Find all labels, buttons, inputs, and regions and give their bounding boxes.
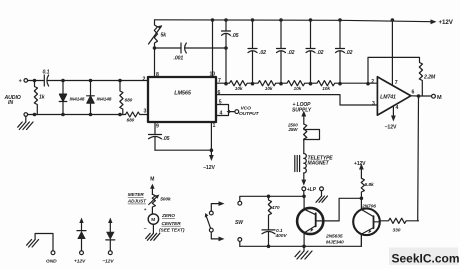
- capacitor .05 pin9: [154, 122, 156, 134]
- resistor 680 horizontal to pin3: [126, 112, 149, 117]
- svg-text:4: 4: [396, 105, 399, 111]
- transistor Q2 2N706: [353, 209, 380, 236]
- op-amp U2 LM741: [377, 77, 410, 115]
- wire input bottom: [28, 114, 126, 116]
- svg-text:ZERO: ZERO: [161, 213, 175, 219]
- capacitor 0.1 input: [43, 75, 45, 86]
- svg-text:IN: IN: [8, 100, 13, 106]
- switch SW terminals right: [238, 201, 242, 205]
- wire pin8 riser: [154, 48, 156, 77]
- capacitor C .05 top: [225, 20, 227, 31]
- -12V arrow LM565: [209, 155, 214, 161]
- svg-text:9: 9: [156, 124, 159, 130]
- svg-text:2: 2: [143, 76, 146, 82]
- svg-text:CENTER: CENTER: [162, 221, 182, 227]
- svg-text:0.1: 0.1: [43, 70, 50, 76]
- legend -12V supply symbol: [108, 251, 112, 255]
- svg-text:.02: .02: [259, 50, 266, 56]
- capacitor .02 no4: [339, 20, 341, 48]
- wire +12V top rail: [155, 20, 433, 22]
- audio input + terminal: [24, 79, 28, 83]
- svg-text:5: 5: [219, 100, 222, 106]
- svg-text:500k: 500k: [160, 196, 171, 202]
- wire Q1 collector up to +LP node: [303, 196, 305, 209]
- svg-text:LM741: LM741: [380, 95, 396, 101]
- potentiometer 500k: [152, 194, 155, 214]
- wire pin9 to pin1: [155, 149, 211, 151]
- svg-text:680: 680: [125, 98, 133, 104]
- switch SW poles left: [209, 211, 213, 215]
- svg-text:+: +: [144, 208, 147, 213]
- rheostat 2500 25W: [304, 124, 307, 140]
- svg-text:10k: 10k: [235, 86, 243, 92]
- inductor teletype magnet: [304, 154, 307, 174]
- svg-text:VCO: VCO: [241, 106, 252, 112]
- resistor 1k: [34, 81, 37, 115]
- wire .001 to node: [186, 47, 226, 49]
- +12V rail arrow: [431, 19, 437, 24]
- svg-text:+LP: +LP: [307, 187, 317, 193]
- resistor 470: [268, 196, 271, 229]
- wire Q2 collector up: [360, 198, 362, 209]
- terminal +LP: [302, 187, 306, 191]
- wire Q1 emitter down: [303, 233, 305, 247]
- svg-text:−12V: −12V: [385, 125, 397, 131]
- capacitor .02 no1: [252, 20, 254, 48]
- loop supply arrow: [301, 111, 306, 117]
- svg-text:1: 1: [213, 123, 216, 129]
- switch blade: [206, 216, 210, 228]
- svg-text:3: 3: [144, 109, 147, 115]
- svg-text:680: 680: [127, 117, 135, 123]
- capacitor .02 no2: [280, 20, 282, 48]
- svg-text:.05: .05: [232, 33, 239, 39]
- wire Q2 emitter down: [360, 234, 362, 246]
- meter M1 zero center: [148, 214, 158, 224]
- svg-text:2: 2: [371, 79, 374, 85]
- svg-text:.02: .02: [288, 50, 295, 56]
- resistor ladder pin7 10k x4: [216, 81, 377, 86]
- wire meter down: [152, 224, 154, 233]
- svg-text:6: 6: [412, 90, 415, 96]
- svg-text:+: +: [19, 78, 22, 84]
- svg-text:−: −: [144, 226, 147, 232]
- legend GND terminal: [51, 251, 55, 255]
- svg-text:+12V: +12V: [439, 19, 454, 26]
- meter branch arrow M: [150, 184, 155, 189]
- svg-text:MJE340: MJE340: [326, 240, 344, 246]
- svg-text:7: 7: [395, 80, 398, 86]
- svg-text:IN4148: IN4148: [70, 97, 85, 103]
- wire pin4 LM741: [392, 106, 394, 118]
- svg-text:10k: 10k: [294, 86, 302, 92]
- ground bottom rail: [303, 246, 305, 251]
- svg-text:2.2M: 2.2M: [423, 75, 436, 81]
- svg-text:LM565: LM565: [174, 91, 192, 97]
- svg-text:4: 4: [220, 111, 223, 117]
- output terminal M: [432, 94, 436, 98]
- svg-text:400V: 400V: [275, 233, 288, 239]
- wire input top: [28, 80, 44, 82]
- feedback loop 2.2M: [368, 57, 423, 96]
- svg-text:10: 10: [210, 71, 216, 77]
- wire pin7 riser LM741: [391, 20, 393, 86]
- transistor Q1 2N5635 MJE340: [297, 208, 323, 234]
- svg-text:M: M: [437, 95, 442, 101]
- svg-text:.02: .02: [317, 50, 324, 56]
- svg-text:.001: .001: [174, 56, 184, 62]
- svg-text:2N706: 2N706: [361, 204, 376, 210]
- svg-text:SUPPLY: SUPPLY: [292, 107, 312, 113]
- resistor 330: [380, 218, 419, 223]
- svg-text:6: 6: [218, 90, 221, 96]
- ground meter: [146, 233, 160, 240]
- VCO output terminal: [229, 111, 235, 113]
- wire output down: [417, 96, 420, 221]
- wire pin6 to pin3: [216, 95, 377, 105]
- svg-text:.02: .02: [346, 50, 353, 56]
- svg-text:2N5635: 2N5635: [325, 234, 343, 240]
- svg-text:330: 330: [393, 228, 401, 234]
- svg-text:IN4148: IN4148: [97, 97, 112, 103]
- ground audio in: [25, 116, 27, 122]
- svg-text:+12V: +12V: [354, 161, 366, 167]
- output wire LM741: [411, 95, 432, 97]
- svg-text:6.8k: 6.8k: [365, 182, 374, 188]
- legend +12V supply symbol: [80, 251, 84, 255]
- diode D1 1N4148: [62, 81, 64, 95]
- op-amp IC LM565 body: [148, 77, 216, 122]
- svg-text:+12V: +12V: [74, 258, 86, 264]
- diode D2 1N4148: [90, 81, 92, 96]
- potentiometer 5k: [154, 20, 157, 48]
- wire pin1 riser: [210, 122, 212, 157]
- capacitor .02 no3: [310, 20, 312, 48]
- svg-text:10k: 10k: [265, 86, 273, 92]
- tap box rheostat: [304, 130, 320, 140]
- svg-text:470: 470: [271, 205, 280, 211]
- wire coil to +LP arrow: [303, 173, 305, 182]
- bottom ground rail: [240, 234, 362, 246]
- +12V arrow 6.8k: [359, 164, 364, 170]
- svg-text:OUTPUT: OUTPUT: [239, 111, 260, 117]
- svg-text:7: 7: [218, 78, 221, 84]
- wire to coil: [303, 140, 305, 154]
- svg-text:−12V: −12V: [102, 258, 114, 264]
- wire node pot to cap .001: [155, 47, 181, 49]
- svg-text:3: 3: [372, 101, 375, 107]
- capacitor C .001: [180, 43, 182, 53]
- svg-text:ADJUST: ADJUST: [127, 199, 147, 204]
- svg-text:10k: 10k: [322, 86, 330, 92]
- svg-text:SW: SW: [235, 220, 244, 226]
- audio input ground terminal: [24, 113, 28, 117]
- svg-text:GND: GND: [46, 258, 57, 264]
- svg-text:8: 8: [156, 72, 159, 78]
- svg-text:MAGNET: MAGNET: [308, 160, 330, 166]
- resistor 6.8k: [361, 168, 364, 199]
- wire +LP node left: [240, 196, 304, 200]
- capacitor 0.1 400V: [262, 229, 275, 231]
- terminal ground loop: [320, 187, 324, 191]
- watermark SeekIC.com: [389, 248, 458, 266]
- svg-text:−12V: −12V: [203, 165, 215, 171]
- svg-text:M: M: [150, 176, 154, 182]
- wire pin10 riser: [212, 20, 214, 77]
- resistor 680 vertical: [120, 81, 123, 115]
- svg-text:.05: .05: [163, 136, 170, 142]
- svg-text:(SEE TEXT): (SEE TEXT): [159, 228, 185, 234]
- jumper box pins 4-5: [216, 105, 229, 116]
- svg-text:25W: 25W: [288, 127, 299, 132]
- wire input top cont: [48, 80, 148, 82]
- svg-text:METER: METER: [128, 192, 145, 197]
- svg-text:SeekIC.com: SeekIC.com: [392, 251, 460, 265]
- wire Q2 collector to Q1 base: [323, 198, 361, 221]
- svg-text:M: M: [151, 217, 155, 223]
